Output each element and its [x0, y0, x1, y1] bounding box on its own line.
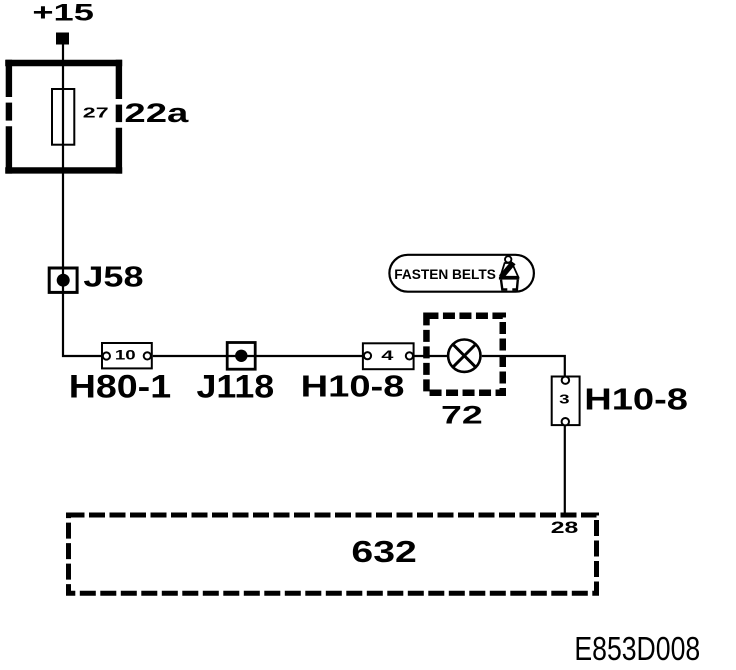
fuse box 22a (dashed)	[5, 60, 122, 174]
svg-text:J58: J58	[83, 261, 143, 293]
junction J118	[227, 343, 255, 370]
junction J118 dot	[235, 350, 247, 362]
connector H10-8 pin 4	[363, 343, 414, 369]
svg-text:H80-1: H80-1	[69, 369, 171, 405]
wire from +15 through fuse and J58 down then right to H80-1	[63, 45, 102, 357]
junction J58	[49, 268, 77, 292]
junction J58 dot	[57, 274, 70, 287]
svg-text:4: 4	[381, 347, 394, 363]
svg-text:H10-8: H10-8	[584, 383, 688, 417]
svg-text:632: 632	[351, 535, 416, 569]
wire connector down to 632	[564, 425, 566, 515]
node +15 terminal	[56, 33, 69, 45]
svg-text:H10-8: H10-8	[301, 370, 405, 404]
connector H80-1 pin 10	[102, 343, 152, 368]
control unit box 632 (dashed)	[69, 515, 597, 593]
seated person with belt icon	[499, 256, 519, 289]
svg-text:72: 72	[441, 401, 483, 429]
wire lamp to right connector	[482, 356, 565, 377]
svg-text:J118: J118	[197, 369, 275, 405]
wire H10-8 to lamp	[414, 355, 448, 357]
fuse 27	[52, 89, 74, 145]
lamp (bulb)	[448, 340, 480, 372]
svg-text:22a: 22a	[124, 98, 189, 128]
lamp unit box 72 (dashed)	[426, 316, 502, 393]
svg-text:FASTEN BELTS: FASTEN BELTS	[394, 266, 496, 282]
connector H10-8 pin 3 (vertical)	[552, 377, 580, 426]
svg-text:3: 3	[559, 393, 570, 406]
svg-text:+15: +15	[32, 0, 94, 26]
svg-text:10: 10	[115, 348, 136, 363]
svg-text:28: 28	[551, 519, 579, 537]
svg-text:27: 27	[83, 105, 109, 121]
wire H80-1 through J118 to H10-8	[153, 355, 363, 357]
fasten belts sign	[389, 255, 534, 292]
svg-text:E853D008: E853D008	[574, 631, 700, 667]
